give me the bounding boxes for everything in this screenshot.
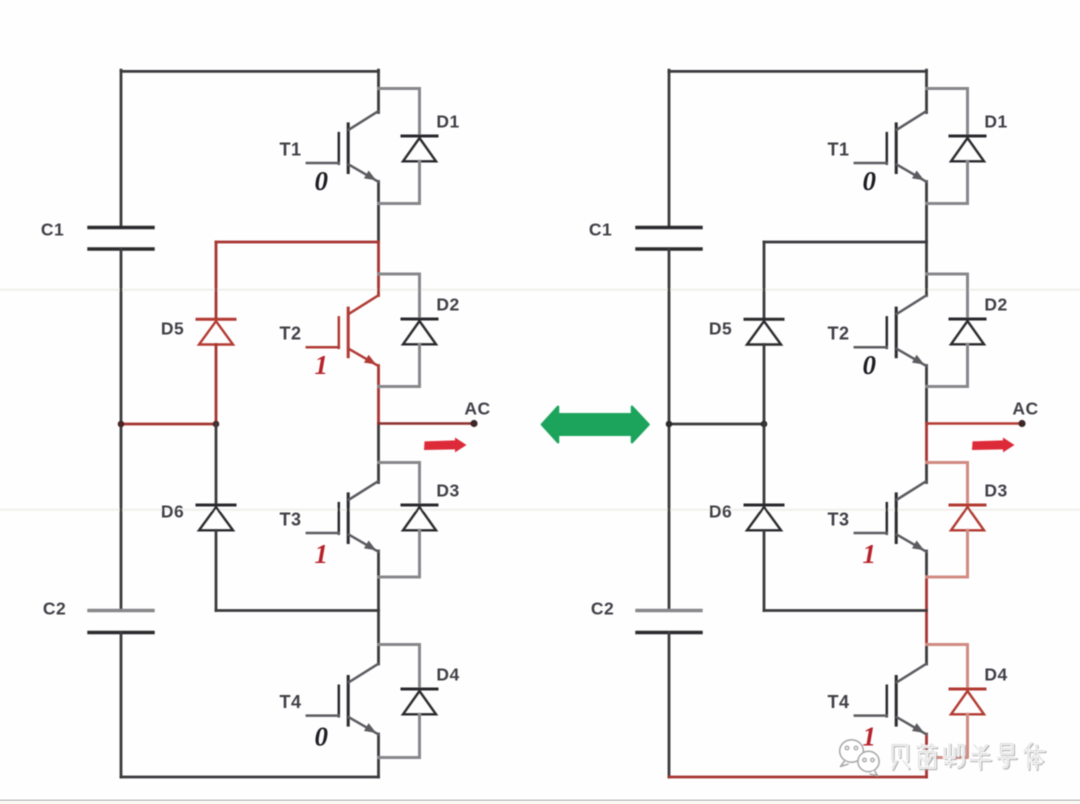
wire right T3 emitter segment xyxy=(925,551,928,577)
diode D1 (right) xyxy=(950,136,985,161)
wire left DC bus rail lower segment xyxy=(120,633,123,778)
wire left D2 loop bottom branch xyxy=(379,344,420,386)
wire left T3/T4 node to T4 collector xyxy=(377,611,380,646)
wire left D1 loop bottom branch xyxy=(379,161,420,203)
svg-text:D1: D1 xyxy=(984,112,1007,132)
wire right D4 loop bottom branch xyxy=(927,714,968,757)
capacitor C2 (left) xyxy=(89,611,153,633)
wire right DC bus rail middle segment xyxy=(668,249,671,611)
svg-text:T3: T3 xyxy=(827,510,849,530)
node right neutral on rail xyxy=(666,421,673,428)
wire left AC output xyxy=(379,422,473,425)
svg-text:D4: D4 xyxy=(436,665,459,685)
svg-text:T4: T4 xyxy=(279,692,301,712)
svg-text:AC: AC xyxy=(464,399,490,419)
svg-text:D5: D5 xyxy=(709,319,732,339)
wire left DC bus rail middle segment xyxy=(120,249,123,611)
diode D5 (left) xyxy=(197,319,235,344)
watermark text 贝茵凯半导体 xyxy=(892,743,1046,771)
wire right DC bus rail lower segment xyxy=(668,633,671,778)
wire right D3 loop top branch xyxy=(927,463,968,505)
svg-text:D6: D6 xyxy=(709,502,732,522)
svg-text:D3: D3 xyxy=(984,481,1007,501)
diode D3 (left) xyxy=(402,505,437,530)
diode D2 (right) xyxy=(950,319,985,344)
wire left T3 emitter segment xyxy=(377,551,380,577)
wire left T1/T2 node to T2 collector xyxy=(377,242,380,296)
wire right D3 branch to T3 collector xyxy=(925,463,928,483)
transistor T2 (right) xyxy=(855,296,927,366)
wire right D3 loop bottom branch xyxy=(927,530,968,577)
wire left clamp chain lower (to D6) xyxy=(215,424,218,505)
svg-text:1: 1 xyxy=(315,350,329,380)
wire right D5 anode to neutral xyxy=(763,345,766,425)
svg-text:T2: T2 xyxy=(279,324,301,344)
transistor T1 (right) xyxy=(855,112,927,182)
wire right T3/T4 node to T4 collector xyxy=(925,611,928,646)
diode D4 (right) xyxy=(950,689,985,714)
wire left D4 loop top branch xyxy=(379,645,420,689)
wire right D2 loop top branch xyxy=(927,274,968,318)
wire left top rail xyxy=(121,70,379,73)
svg-text:C2: C2 xyxy=(591,599,614,619)
capacitor C1 (left) xyxy=(89,228,153,250)
wire left D3 loop bottom branch xyxy=(379,530,420,577)
wire left T2 emitter to AC node xyxy=(377,366,380,424)
svg-text:T1: T1 xyxy=(279,140,301,160)
svg-text:0: 0 xyxy=(863,166,877,196)
node left neutral on rail xyxy=(118,421,125,428)
wire right D6 anode to T3/T4 junction xyxy=(763,531,766,611)
svg-text:C2: C2 xyxy=(43,599,66,619)
node right AC terminal xyxy=(1018,420,1025,427)
svg-text:T3: T3 xyxy=(279,510,301,530)
wire left T1 collector feed xyxy=(377,70,380,112)
wire left AC node to D3 branch xyxy=(377,424,380,464)
wire right T1 emitter to T1/T2 node xyxy=(925,182,928,243)
wire right neutral point to clamp chain xyxy=(669,423,764,426)
wire right D3 return to T3/T4 node xyxy=(925,577,928,611)
wire left neutral point to clamp chain xyxy=(121,423,216,426)
wire right T2 emitter to AC node xyxy=(925,366,928,424)
wire right D1 loop bottom branch xyxy=(927,161,968,203)
wire right clamp chain upper (to D5) xyxy=(763,242,766,318)
svg-text:0: 0 xyxy=(863,350,877,380)
wire left D5 anode to neutral xyxy=(215,345,218,425)
current arrow right (red) xyxy=(972,438,1015,453)
diode D5 (right) xyxy=(745,319,783,344)
wire left T1/T2 junction to clamp chain xyxy=(216,241,379,244)
svg-text:0: 0 xyxy=(315,722,329,752)
transistor T3 (left) xyxy=(307,482,379,552)
svg-text:D4: D4 xyxy=(984,665,1007,685)
diode D6 (left) xyxy=(197,505,235,530)
current arrow left (red) xyxy=(424,438,467,453)
wire right T1/T2 node to T2 collector xyxy=(925,242,928,296)
wire right AC node to D3 branch xyxy=(925,424,928,464)
watermark WeChat logo xyxy=(840,740,879,776)
svg-text:1: 1 xyxy=(863,539,877,569)
diode D3 (right) xyxy=(950,505,985,530)
wire right clamp chain lower (to D6) xyxy=(763,424,766,505)
svg-text:D3: D3 xyxy=(436,481,459,501)
wire right T1 collector feed xyxy=(925,70,928,112)
transistor T2 (left) xyxy=(307,296,379,366)
wire right D4 return to bottom rail xyxy=(925,758,928,778)
wire left D2 loop top branch xyxy=(379,274,420,318)
wire left T3/T4 junction to clamp chain xyxy=(216,609,379,612)
wire left D1 loop top branch xyxy=(379,89,420,136)
svg-text:C1: C1 xyxy=(589,220,612,240)
svg-text:1: 1 xyxy=(863,722,877,752)
node left AC terminal xyxy=(470,420,477,427)
wire right AC output xyxy=(927,422,1021,425)
wire right bottom rail xyxy=(669,776,927,779)
svg-text:D2: D2 xyxy=(436,295,459,315)
wire left T4 collector short segment xyxy=(377,645,380,665)
diode D4 (left) xyxy=(402,689,437,714)
node left clamp midpoint xyxy=(213,421,220,428)
transistor T1 (left) xyxy=(307,112,379,182)
wire right T4 collector short segment xyxy=(925,645,928,665)
wire right top rail xyxy=(669,70,927,73)
transistor T3 (right) xyxy=(855,482,927,552)
wire left clamp chain upper (to D5) xyxy=(215,242,218,318)
wire right T3/T4 junction to clamp chain xyxy=(764,609,927,612)
svg-text:0: 0 xyxy=(315,166,329,196)
wire left D3 loop top branch xyxy=(379,463,420,505)
svg-text:D1: D1 xyxy=(436,112,459,132)
wire left D3 return to T3/T4 node xyxy=(377,577,380,611)
wire left bottom rail xyxy=(121,776,379,779)
wire left T4 emitter segment xyxy=(377,734,380,758)
svg-text:T2: T2 xyxy=(827,324,849,344)
svg-text:C1: C1 xyxy=(41,220,64,240)
wire right D1 loop top branch xyxy=(927,89,968,136)
svg-text:1: 1 xyxy=(315,539,329,569)
diode D6 (right) xyxy=(745,505,783,530)
svg-text:AC: AC xyxy=(1012,399,1038,419)
capacitor C1 (right) xyxy=(637,228,701,250)
transition arrow (green double-headed) xyxy=(542,407,649,442)
svg-text:D6: D6 xyxy=(161,502,184,522)
diode D2 (left) xyxy=(402,319,437,344)
diode D1 (left) xyxy=(402,136,437,161)
wire left D6 anode to T3/T4 junction xyxy=(215,531,218,611)
wire right T4 emitter segment xyxy=(925,734,928,758)
wire right D4 loop top branch xyxy=(927,645,968,689)
wire left T1 emitter to T1/T2 node xyxy=(377,182,380,243)
page bottom separator line xyxy=(0,799,1080,801)
wire right DC bus rail upper segment xyxy=(668,70,671,227)
svg-text:T4: T4 xyxy=(827,692,849,712)
capacitor C2 (right) xyxy=(637,611,701,633)
node right clamp midpoint xyxy=(761,421,768,428)
wire left D3 branch to T3 collector xyxy=(377,463,380,483)
svg-text:D5: D5 xyxy=(161,319,184,339)
wire left D4 loop bottom branch xyxy=(379,714,420,757)
wire left DC bus rail upper segment xyxy=(120,70,123,227)
transistor T4 (left) xyxy=(307,664,379,734)
wire right D2 loop bottom branch xyxy=(927,344,968,386)
svg-text:D2: D2 xyxy=(984,295,1007,315)
svg-text:T1: T1 xyxy=(827,140,849,160)
transistor T4 (right) xyxy=(855,664,927,734)
wire left D4 return to bottom rail xyxy=(377,758,380,778)
wire right T1/T2 junction to clamp chain xyxy=(764,241,927,244)
